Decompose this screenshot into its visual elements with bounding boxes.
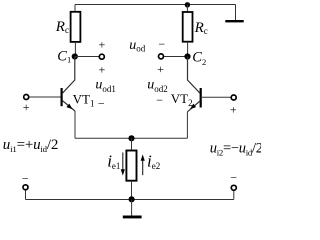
wire emitter VT2 down	[186, 112, 188, 138]
terminal right input	[231, 95, 236, 100]
ground bottom-center	[123, 216, 142, 219]
wire bottom-right terminal to rail	[233, 191, 235, 200]
terminal left output	[99, 54, 104, 59]
svg-text:+: +	[99, 63, 106, 77]
node top rail junction	[185, 2, 190, 7]
node bottom rail junction	[129, 196, 135, 202]
svg-text:−: −	[230, 170, 237, 184]
resistor Rc right	[183, 12, 193, 42]
svg-text:−: −	[22, 171, 29, 185]
node emitter junction	[128, 135, 134, 141]
wire collector VT1	[62, 57, 74, 94]
svg-text:−: −	[98, 97, 105, 111]
ground top-right	[225, 20, 243, 22]
svg-text:+: +	[230, 103, 237, 117]
wire base VT1	[29, 96, 60, 98]
wire left Rc to node C1	[74, 42, 76, 57]
wire stub rail to left Rc	[74, 5, 76, 12]
wire base VT2	[201, 96, 231, 98]
arrow i_e1 down	[122, 153, 124, 171]
wire top supply rail	[75, 4, 236, 6]
wire C1 to left output terminal	[75, 56, 99, 58]
resistor Rc left	[71, 12, 81, 42]
arrow i_e2 up	[142, 160, 144, 176]
svg-text:−: −	[158, 37, 165, 51]
wire current source to bottom rail	[131, 181, 133, 200]
wire right output terminal to C2	[164, 56, 188, 58]
node C2	[184, 53, 190, 59]
terminal left input	[24, 95, 29, 100]
wire junction to current source	[131, 138, 133, 150]
wire right Rc to node C2	[187, 42, 189, 57]
svg-text:+: +	[99, 38, 106, 52]
transistor VT1 base bar	[60, 88, 62, 106]
wire emitter rail	[75, 137, 188, 139]
wire collector VT2	[188, 57, 201, 94]
terminal right output	[159, 54, 164, 59]
wire bottom rail	[26, 199, 234, 201]
wire emitter VT1 down	[74, 111, 76, 138]
transistor VT2 emitter with arrow	[187, 101, 200, 112]
terminal bottom-left	[23, 185, 28, 190]
svg-text:+: +	[23, 100, 30, 114]
terminal bottom-right	[231, 185, 236, 190]
node C1	[72, 53, 78, 59]
wire stub rail to right Rc	[186, 5, 188, 13]
transistor VT2 base bar	[200, 88, 202, 108]
svg-text:+: +	[157, 62, 164, 76]
wire rail down to top-right ground	[235, 5, 237, 21]
transistor VT1 emitter with arrow	[62, 101, 75, 111]
current source rectangle	[126, 151, 136, 181]
svg-text:−: −	[156, 93, 163, 107]
wire bottom-left terminal to rail	[25, 190, 27, 199]
wire junction to bottom ground	[131, 200, 133, 216]
